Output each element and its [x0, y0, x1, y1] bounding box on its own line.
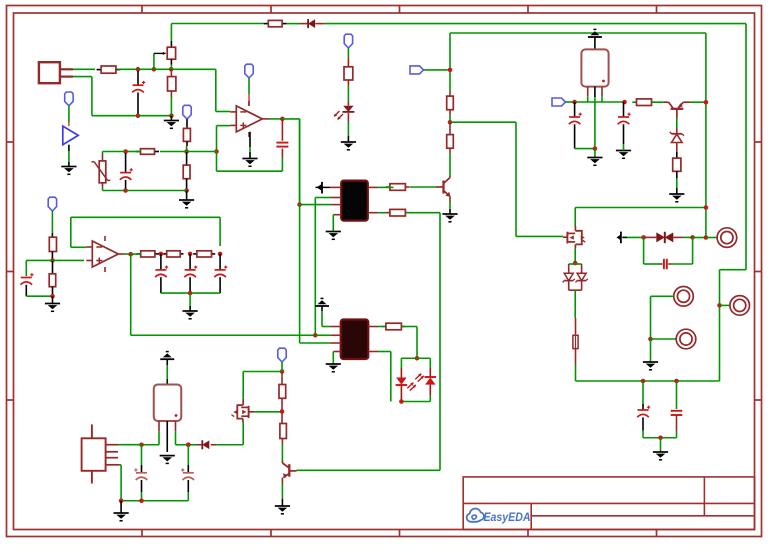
- wire: [166, 365, 168, 379]
- connector J1 (square): [39, 62, 73, 83]
- wire: [402, 327, 418, 359]
- node junction: [297, 202, 302, 207]
- node junction: [572, 100, 577, 105]
- crystal X1: [82, 424, 120, 483]
- wire: [347, 48, 349, 58]
- ground: [616, 151, 631, 159]
- regulator U7 (boxed): [154, 379, 182, 452]
- buffer U1 (blue triangle): [63, 126, 78, 145]
- node junction: [188, 291, 193, 296]
- ground: [164, 116, 179, 129]
- wire: [576, 365, 720, 381]
- LED D2: [334, 101, 354, 120]
- EasyEDA logo: [467, 509, 531, 524]
- power flag: [315, 298, 329, 311]
- node junction: [573, 261, 578, 266]
- node junction: [717, 303, 722, 308]
- node junction: [128, 252, 133, 257]
- resistor R3: [264, 20, 287, 26]
- wire: [26, 295, 52, 297]
- wire: [300, 204, 331, 206]
- node junction: [119, 498, 124, 503]
- diode D9: [197, 440, 217, 449]
- net flag VCC4: [344, 34, 352, 48]
- node junction: [186, 442, 191, 447]
- wire: [142, 444, 160, 446]
- wire: [449, 115, 451, 122]
- wire: [170, 65, 172, 70]
- wire: [171, 69, 216, 111]
- resistor R15: [49, 260, 56, 296]
- ground: [341, 113, 356, 150]
- wire: [243, 369, 282, 399]
- wire: [693, 237, 706, 239]
- node junction: [280, 409, 285, 414]
- connector P2: [730, 296, 750, 316]
- wire: [574, 290, 576, 318]
- node junction: [704, 235, 709, 240]
- capacitor C5: [618, 102, 631, 144]
- node junction: [658, 435, 663, 440]
- resistor R16: [137, 251, 160, 257]
- wire: [103, 187, 126, 191]
- resistor R2: [168, 69, 176, 97]
- node junction: [641, 379, 646, 384]
- node junction: [641, 235, 646, 240]
- wire: [378, 326, 386, 328]
- wire: [672, 237, 693, 264]
- polarity arrow: [617, 232, 644, 244]
- wire: [347, 85, 349, 101]
- wire: [176, 444, 189, 446]
- ground: [643, 339, 658, 370]
- net flag VCC1: [65, 92, 73, 106]
- wire: [281, 444, 283, 461]
- wire: [287, 23, 300, 25]
- resistor R9: [447, 122, 454, 153]
- ground: [179, 191, 194, 208]
- MOSFET M2: [231, 399, 254, 422]
- wire: [690, 101, 706, 103]
- LED D8: [425, 358, 437, 401]
- node junction: [123, 149, 128, 154]
- net flag IN1: [410, 66, 424, 74]
- LED arrows: [407, 374, 424, 391]
- fuse F1: [573, 318, 578, 365]
- thermistor RT1: [92, 154, 111, 187]
- wire: [53, 259, 85, 261]
- node junction: [648, 337, 653, 342]
- node junction: [704, 205, 709, 210]
- wire: [131, 254, 316, 335]
- node junction: [139, 442, 144, 447]
- capacitor C1: [132, 71, 145, 116]
- resistor R20: [279, 372, 286, 412]
- wire: [575, 208, 706, 227]
- wire: [73, 68, 95, 70]
- node junction: [280, 369, 285, 374]
- wire: [217, 152, 283, 172]
- wire: [51, 211, 53, 233]
- wire: [450, 33, 706, 238]
- resistor R12: [673, 152, 681, 178]
- wire: [103, 152, 126, 155]
- transistor Q2 (PNP): [664, 102, 690, 118]
- title block: [463, 477, 754, 530]
- wire: [154, 68, 171, 70]
- wire: [623, 144, 625, 151]
- trimmer RP1: [154, 41, 176, 69]
- node junction: [152, 67, 157, 72]
- capacitor C10: [155, 254, 168, 293]
- wire: [643, 431, 677, 438]
- optocoupler U4: [330, 181, 378, 221]
- wire: [449, 33, 451, 91]
- resistor R8: [447, 91, 454, 115]
- wire: [217, 126, 231, 152]
- polarity arrow: [316, 182, 331, 194]
- wire: [424, 69, 451, 71]
- wire: [282, 119, 299, 205]
- power flag: [160, 352, 174, 365]
- node junction: [448, 120, 453, 125]
- capacitor C4: [569, 102, 582, 149]
- optocoupler U6: [330, 320, 378, 360]
- wire: [187, 151, 217, 153]
- regulator U3 (boxed): [581, 49, 608, 97]
- wire: [297, 213, 441, 471]
- capacitor C14: [181, 445, 194, 501]
- ground: [442, 197, 457, 222]
- diode D1: [300, 19, 325, 28]
- wire: [325, 24, 746, 381]
- wire: [315, 334, 330, 336]
- wire: [401, 401, 430, 403]
- wire: [676, 118, 678, 128]
- ground: [587, 149, 602, 166]
- wire: [248, 78, 250, 94]
- net flag VCC3: [245, 64, 253, 78]
- resistor R11: [632, 99, 655, 106]
- net flag VCC6: [278, 348, 286, 362]
- wire: [720, 304, 731, 306]
- wire: [566, 101, 575, 103]
- LED D7: [396, 358, 408, 401]
- wire: [125, 253, 131, 255]
- op-amp U5: [86, 236, 125, 272]
- node junction: [313, 333, 318, 338]
- wire: [378, 186, 393, 188]
- wire: [118, 68, 139, 70]
- capacitor C11: [184, 254, 197, 293]
- ground: [326, 215, 341, 240]
- wire: [188, 444, 196, 446]
- wire: [131, 253, 141, 255]
- wire pin: [248, 94, 250, 106]
- capacitor C2: [120, 153, 133, 191]
- node junction: [184, 188, 189, 193]
- ground: [669, 178, 684, 202]
- ground: [326, 352, 341, 372]
- node junction: [593, 146, 598, 151]
- capacitor C13: [134, 445, 147, 501]
- wire: [322, 311, 330, 327]
- wire: [138, 115, 171, 117]
- connector P4: [676, 329, 696, 349]
- resistor R4: [183, 119, 190, 146]
- connector P3: [674, 287, 694, 307]
- node junction: [169, 113, 174, 118]
- transistor Q3 (PNP): [282, 461, 296, 478]
- wire: [254, 411, 282, 413]
- node junction: [136, 113, 141, 118]
- wire: [651, 296, 675, 339]
- wire: [170, 24, 172, 42]
- op-amp U2: [230, 101, 269, 137]
- node junction: [218, 252, 223, 257]
- wire: [574, 248, 576, 263]
- node junction: [123, 188, 128, 193]
- net flag OUT1: [552, 98, 566, 106]
- node junction: [399, 399, 404, 404]
- node junction: [136, 67, 141, 72]
- wire: [401, 357, 430, 359]
- node junction: [50, 258, 55, 263]
- node junction: [139, 498, 144, 503]
- wire: [68, 106, 70, 123]
- ground: [114, 501, 129, 521]
- wire: [652, 101, 665, 103]
- wire: [281, 362, 283, 369]
- node junction: [448, 68, 453, 73]
- capacitor C7: [637, 381, 650, 431]
- node junction: [184, 149, 189, 154]
- wire: [186, 146, 188, 152]
- ground: [160, 456, 175, 464]
- wire: [449, 153, 451, 176]
- wire: [706, 237, 717, 239]
- zener D3: [670, 128, 684, 152]
- node junction: [280, 117, 285, 122]
- wire: [126, 151, 141, 153]
- resistor R19: [382, 323, 406, 330]
- MOSFET M1: [563, 226, 585, 248]
- wire: [378, 212, 390, 214]
- svg-text:EasyEDA: EasyEDA: [484, 510, 531, 524]
- resistor R1: [97, 66, 121, 73]
- wire: [118, 444, 142, 446]
- wire: [588, 96, 602, 102]
- resistor R21: [280, 412, 287, 445]
- capacitor C9: [21, 273, 34, 296]
- wire: [160, 151, 187, 153]
- wire: [594, 97, 596, 149]
- wire: [159, 431, 176, 444]
- TVS D6: [644, 232, 693, 243]
- capacitor C12: [214, 254, 227, 293]
- wire: [644, 237, 660, 264]
- capacitor C6: [660, 259, 672, 269]
- resistor R18: [193, 251, 215, 257]
- wire: [299, 119, 301, 205]
- node junction: [186, 442, 191, 447]
- node junction: [188, 252, 193, 257]
- zener D4 D5 pair: [563, 264, 588, 290]
- ground: [61, 145, 76, 175]
- net flag VCC2: [183, 105, 191, 119]
- resistor R10: [386, 184, 410, 191]
- wire: [575, 148, 595, 150]
- ground: [275, 478, 290, 514]
- wire: [315, 198, 330, 336]
- connector P1: [717, 228, 737, 248]
- resistor R14: [49, 233, 56, 260]
- node junction: [674, 379, 679, 384]
- resistor R13: [386, 209, 410, 216]
- wire: [216, 422, 243, 445]
- wire: [120, 465, 122, 501]
- wire: [170, 97, 172, 116]
- wire: [26, 260, 52, 276]
- wire: [378, 352, 391, 402]
- node junction: [159, 252, 164, 257]
- wire: [450, 122, 563, 236]
- power flag: [588, 29, 602, 49]
- node junction: [690, 235, 695, 240]
- wire: [410, 186, 436, 188]
- node junction: [50, 294, 55, 299]
- ground: [45, 296, 60, 311]
- wire: [126, 190, 187, 192]
- ground: [653, 438, 668, 460]
- wire: [73, 77, 138, 116]
- wire: [300, 205, 331, 343]
- ground: [183, 293, 198, 319]
- resistor R7: [344, 58, 353, 85]
- wire: [121, 500, 188, 502]
- resistor R6: [136, 149, 159, 155]
- resistor R5: [183, 152, 190, 191]
- wire: [216, 111, 231, 113]
- ground: [242, 132, 257, 167]
- resistor R17: [163, 251, 183, 257]
- wire: [161, 292, 220, 294]
- node junction: [214, 149, 219, 154]
- net flag VCC5: [48, 197, 56, 211]
- wire: [171, 23, 264, 25]
- node junction: [704, 100, 709, 105]
- wire VCC pin: [68, 123, 70, 127]
- wire: [651, 338, 677, 340]
- capacitor C3: [276, 119, 288, 158]
- capacitor C8: [671, 381, 683, 431]
- wire: [269, 118, 282, 120]
- wire: [575, 101, 625, 103]
- node junction: [169, 67, 174, 72]
- node junction: [415, 356, 420, 361]
- wire: [281, 158, 283, 172]
- wire: [138, 68, 154, 70]
- wire: [71, 217, 220, 247]
- transistor Q1: [436, 176, 451, 197]
- node junction: [622, 100, 627, 105]
